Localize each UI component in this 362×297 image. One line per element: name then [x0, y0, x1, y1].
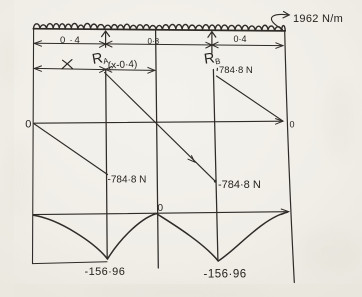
dimension label x: [62, 60, 73, 69]
svg-text:1962 N/m: 1962 N/m: [293, 13, 343, 25]
svg-text:0: 0: [158, 203, 164, 214]
svg-text:0: 0: [290, 120, 295, 130]
dim arrow left end (x): [34, 66, 41, 71]
dim arrowheads at RB (x cross): [206, 42, 218, 48]
end dot of span shear line: [214, 180, 217, 183]
moment curve mid to B (0 to -156.96): [157, 214, 218, 261]
svg-text:-156·96: -156·96: [204, 269, 247, 281]
shear diagram zero axis: [34, 121, 283, 123]
shear line span A-B (+784.8 to -784.8): [105, 73, 216, 182]
arrowhead on span shear line: [188, 156, 195, 162]
moment curve left overhang (0 to -156.96): [34, 215, 108, 259]
shear line right overhang (+784.8 to 0): [217, 76, 283, 121]
moment curve A to mid (-156.96 to 0): [108, 214, 157, 259]
centre line (vertical at mid-span): [156, 31, 159, 268]
dim arrow right end: [276, 43, 283, 49]
dim arrow left end: [34, 41, 41, 46]
svg-text:(x-0·4): (x-0·4): [108, 59, 138, 72]
svg-text:-784·8 N: -784·8 N: [108, 175, 147, 186]
curved arrow to load label: [271, 14, 287, 29]
reaction arrow RB: [208, 32, 216, 54]
dim arrow right end ((x-0.4)): [148, 67, 155, 73]
beam line: [33, 29, 285, 31]
svg-text:784·8 N: 784·8 N: [219, 65, 253, 76]
svg-text:0·4: 0·4: [60, 35, 80, 46]
svg-text:-156·96: -156·96: [85, 266, 126, 278]
reference line at -156.96 level: [33, 262, 108, 264]
dimension line top (0.4 / 0.8 / 0.4): [34, 43, 283, 45]
tick before 784.8 N label: [216, 68, 218, 71]
dim arrowheads at RA (x cross): [100, 41, 113, 47]
svg-text:0·8: 0·8: [148, 37, 160, 46]
moment axis right arrowhead: [281, 209, 289, 215]
dim arrowheads at RA on x-line: [100, 67, 112, 73]
support line at B (vertical through RB): [213, 70, 218, 260]
dimension line x / (x-0.4): [34, 68, 155, 70]
shear line left overhang (0 to -784.8): [34, 124, 107, 175]
support line at A (vertical through RA): [106, 69, 108, 259]
svg-text:0: 0: [25, 118, 31, 130]
shear axis right arrowhead: [276, 119, 284, 125]
moment diagram zero axis: [33, 212, 288, 215]
reaction arrow RA: [102, 31, 110, 47]
right end vertical line: [285, 31, 295, 283]
distributed load coils: [34, 23, 286, 30]
svg-text:0·4: 0·4: [234, 34, 247, 44]
moment curve B to right end (-156.96 to 0): [218, 212, 287, 261]
left end vertical line: [33, 29, 34, 264]
svg-text:-784·8 N: -784·8 N: [218, 179, 261, 191]
